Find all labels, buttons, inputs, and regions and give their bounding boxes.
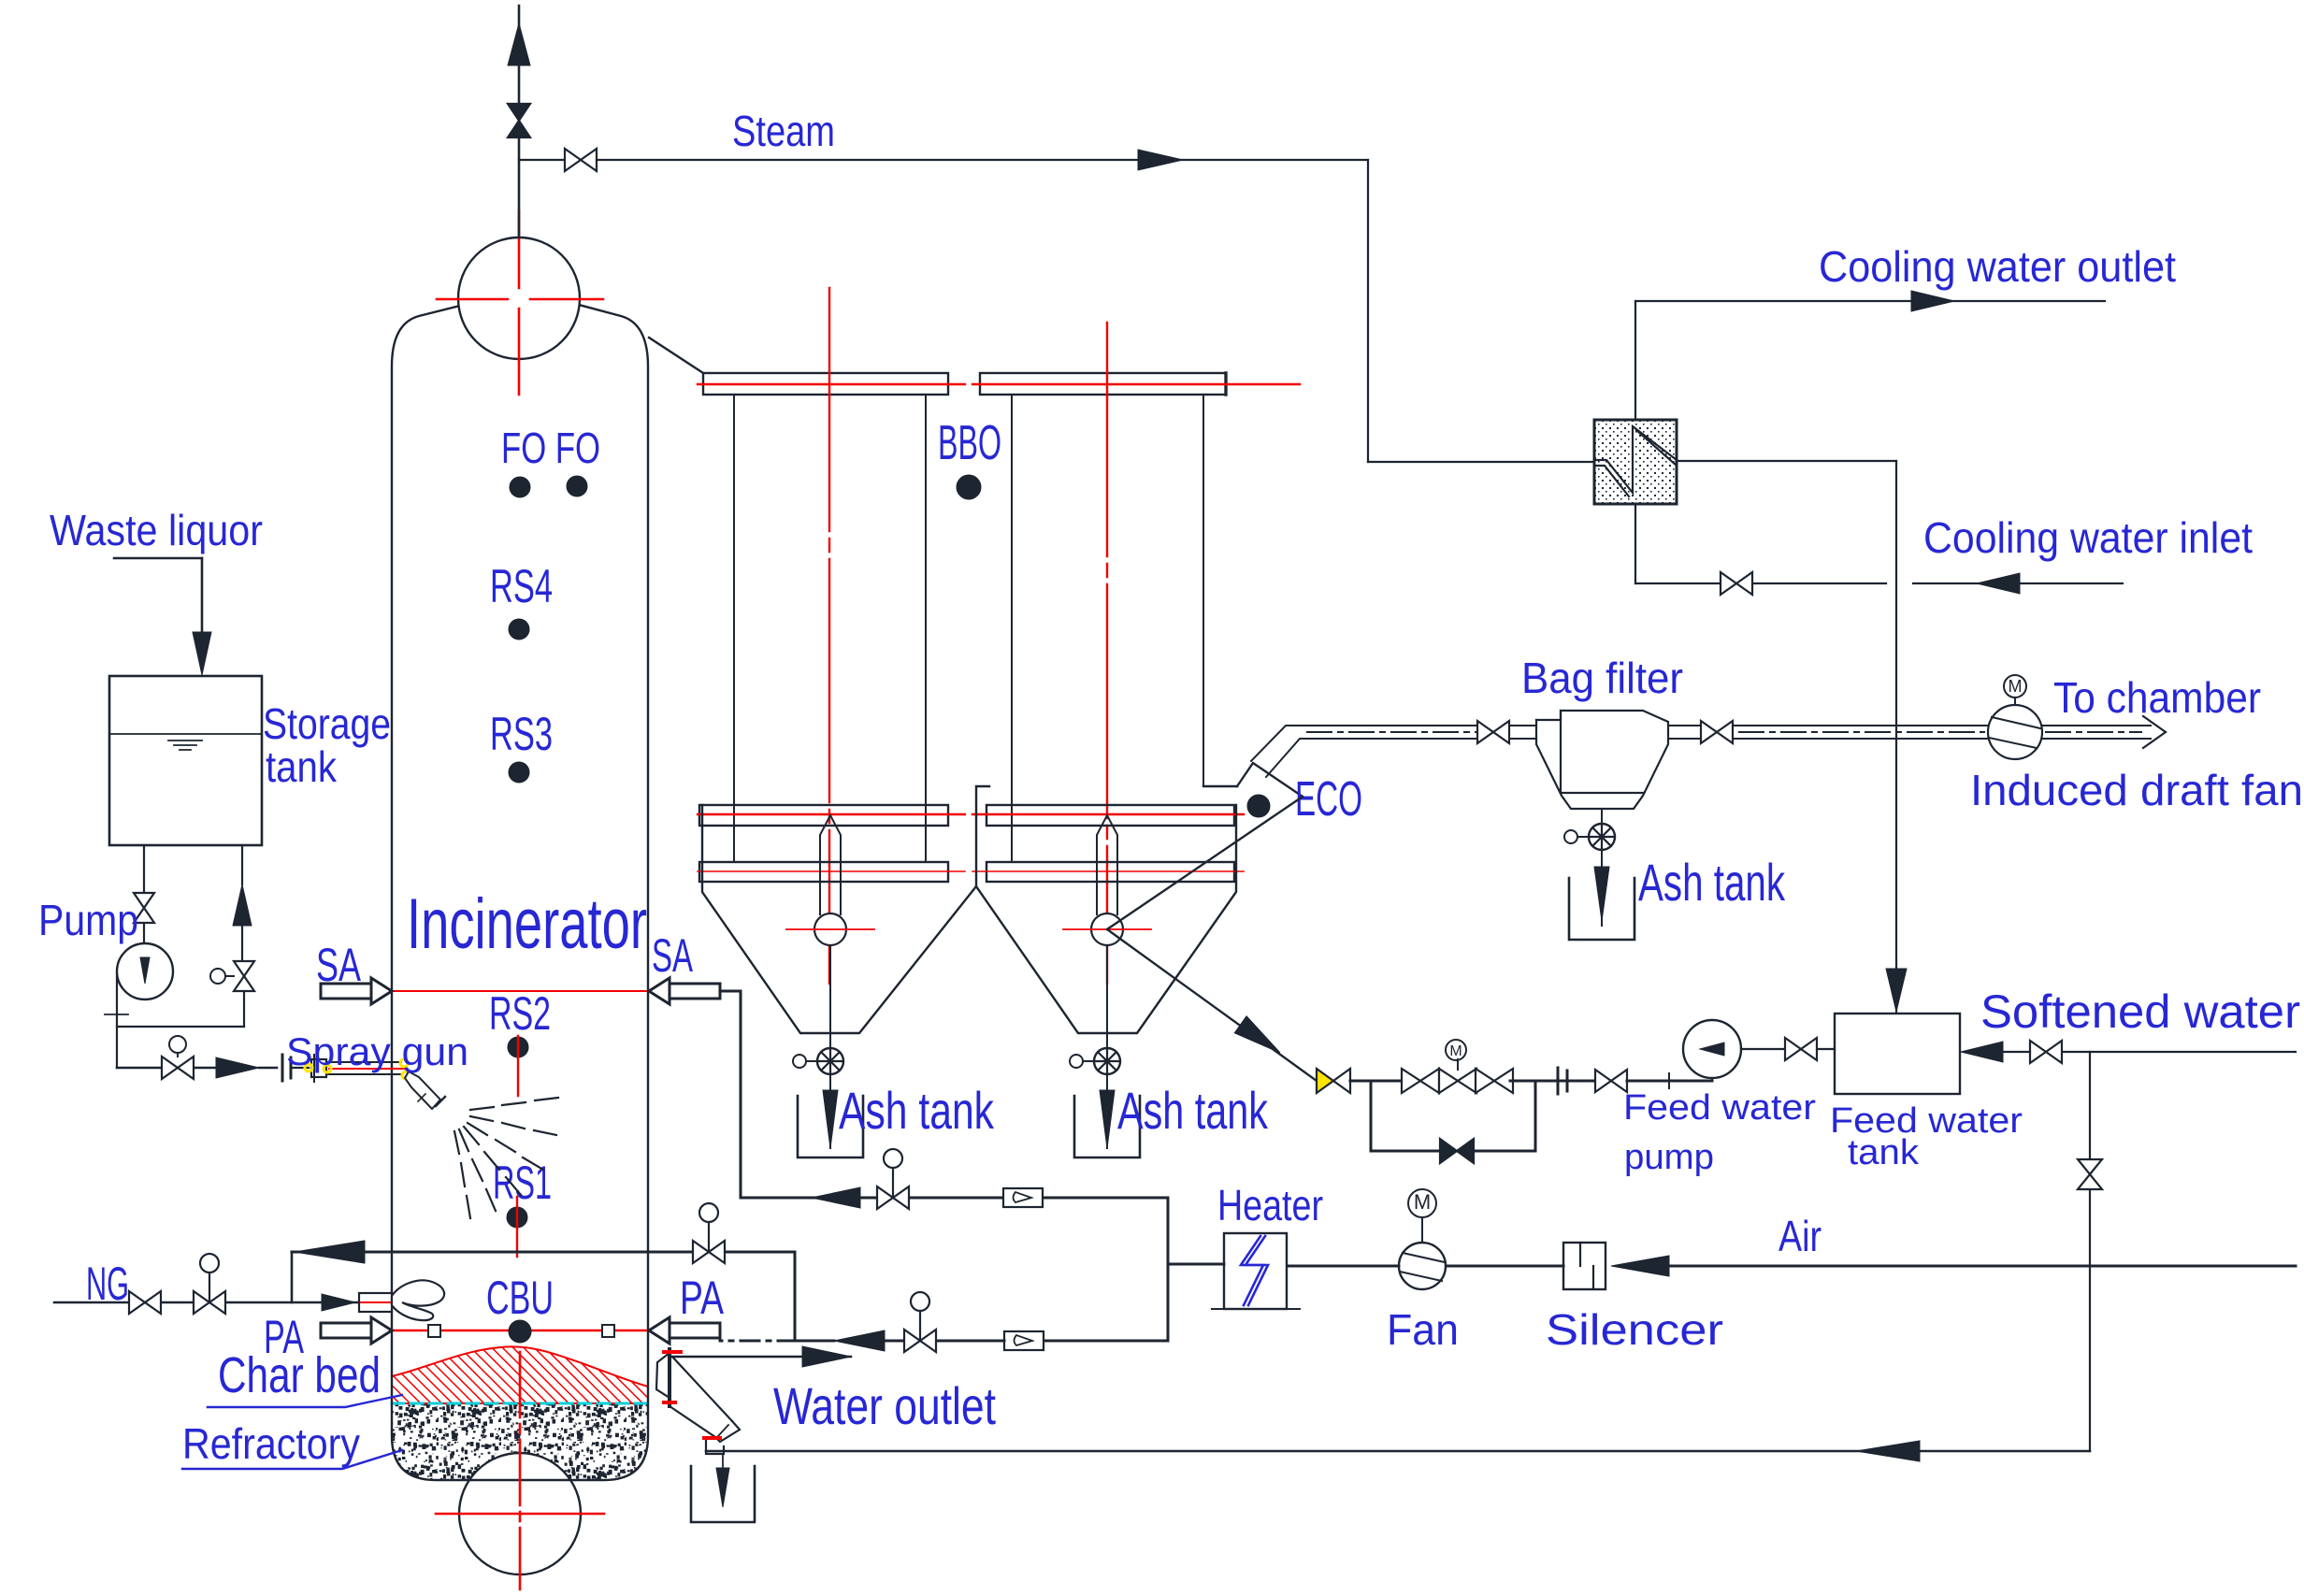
- bag filter rotary valve: [1601, 809, 1603, 824]
- bypass loop: [1371, 1081, 1535, 1151]
- vent arrow: [508, 23, 530, 65]
- svg-text:Ash tank: Ash tank: [839, 1081, 995, 1140]
- svg-text:RS2: RS2: [489, 987, 551, 1040]
- SA nozzle left: [371, 978, 392, 1004]
- char bed leader: [208, 1395, 402, 1407]
- ash tank: [1074, 1096, 1140, 1157]
- RS4 port: [509, 619, 529, 640]
- RS2 red centerline: [517, 1036, 519, 1096]
- motor: [1446, 1040, 1466, 1060]
- red flange lines: [698, 813, 965, 815]
- flow arrow: [1856, 1441, 1920, 1461]
- recirc valve handle: [210, 969, 225, 984]
- refractory stipple fill: [392, 1403, 648, 1480]
- char/refractory boundary (cyan): [392, 1402, 648, 1405]
- svg-text:Heater: Heater: [1217, 1181, 1323, 1229]
- heater centerline: [1212, 1308, 1300, 1310]
- svg-text:Pump: Pump: [38, 896, 138, 944]
- ECO downcomer diagonal: [1107, 797, 1303, 929]
- cooling water inlet line: [1913, 582, 2123, 584]
- air inlet line: [1669, 1265, 2296, 1268]
- feed arrow on diagonal: [1234, 1016, 1280, 1053]
- steam valve: [565, 149, 581, 171]
- valve: [1477, 721, 1493, 743]
- svg-text:Waste liquor: Waste liquor: [50, 506, 263, 554]
- PA level red line: [392, 1330, 648, 1331]
- drop arrow: [716, 1468, 729, 1507]
- valve: [508, 104, 530, 121]
- duct to boiler bank: [649, 338, 703, 373]
- pump arrow: [140, 957, 150, 984]
- bottom return line: [706, 1450, 2090, 1453]
- flow arrow: [802, 1346, 851, 1367]
- svg-text:RS3: RS3: [490, 708, 553, 760]
- incinerator shell: [392, 305, 648, 1480]
- water outlet tank: [691, 1466, 755, 1522]
- cooling water valve: [1721, 572, 1736, 595]
- bypass valve (closed): [1440, 1139, 1457, 1163]
- svg-text:Steam: Steam: [732, 107, 835, 155]
- svg-text:Softened water: Softened water: [1980, 985, 2300, 1038]
- FO ports: [510, 477, 530, 497]
- spray valve: [162, 1057, 178, 1079]
- svg-text:Cooling water inlet: Cooling water inlet: [1923, 513, 2253, 562]
- SA air branch: [742, 1197, 1168, 1200]
- feed water pump: [1683, 1020, 1741, 1078]
- ash tank: [1569, 878, 1634, 940]
- gas centerline: [1307, 731, 1477, 733]
- yellow mark 1: [305, 1064, 312, 1071]
- manifold motor valve: [1439, 1069, 1458, 1093]
- recirc valve: [234, 961, 254, 976]
- SA nozzle right: [649, 978, 670, 1004]
- ECO duct (double line): [1251, 726, 1480, 761]
- NG arrow: [322, 1294, 355, 1311]
- vent line: [518, 6, 521, 237]
- flow arrow: [1961, 1042, 2003, 1062]
- PA port square left: [428, 1325, 440, 1337]
- steam drum: [458, 237, 580, 359]
- cooling water outlet line: [1634, 301, 1636, 420]
- gas line to fan (double): [1733, 725, 1988, 726]
- flow arrow: [812, 1187, 860, 1208]
- svg-text:Cooling water outlet: Cooling water outlet: [1819, 242, 2176, 291]
- RS2 port: [508, 1037, 528, 1057]
- burner flame: [392, 1280, 444, 1320]
- refractory leader: [182, 1450, 402, 1469]
- RS1 port: [507, 1207, 527, 1228]
- motor: [1408, 1189, 1436, 1217]
- tick: [105, 1014, 128, 1015]
- pump suction valve: [134, 893, 154, 908]
- feed water tank: [1835, 1014, 1960, 1094]
- flow arrow: [295, 1241, 365, 1263]
- svg-text:Water outlet: Water outlet: [773, 1376, 996, 1435]
- drop arrow: [1100, 1090, 1115, 1148]
- SA air valve: [877, 1186, 893, 1209]
- drop arrow: [1594, 867, 1609, 921]
- hopper2 upper flange: [986, 805, 1234, 826]
- svg-text:tank: tank: [1848, 1133, 1920, 1172]
- PA nozzle left: [371, 1317, 392, 1344]
- PA port square right: [602, 1325, 614, 1337]
- yellow mark 3: [400, 1059, 408, 1067]
- hopper casing outline: [702, 786, 989, 1033]
- recirculation branch: [241, 845, 243, 884]
- pump arrow: [1700, 1042, 1724, 1056]
- svg-text:To chamber: To chamber: [2053, 673, 2261, 722]
- spout chute: [672, 1357, 732, 1421]
- svg-text:Fan: Fan: [1387, 1305, 1459, 1354]
- tick: [1668, 1073, 1670, 1088]
- svg-text:ECO: ECO: [1295, 772, 1362, 827]
- svg-text:M: M: [2009, 677, 2023, 696]
- steam flow arrow: [1138, 150, 1183, 170]
- PA nozzle right: [649, 1317, 670, 1344]
- spray fan dashes: [470, 1107, 494, 1110]
- softened water line: [2062, 1051, 2296, 1053]
- boiler bank 2 top plate: [980, 373, 1226, 395]
- blowdown branch: [2089, 1052, 2091, 1158]
- svg-text:Ash tank: Ash tank: [1117, 1081, 1269, 1140]
- motor: [2004, 675, 2026, 697]
- gas valve after bag filter: [1701, 721, 1717, 743]
- water outlet arrow line: [670, 1356, 851, 1359]
- waste liquor pump: [117, 943, 173, 999]
- svg-text:Induced draft fan: Induced draft fan: [1970, 766, 2303, 814]
- manifold valve 1: [1402, 1069, 1420, 1093]
- spray nozzle: [405, 1071, 440, 1109]
- spray gun barrel: [326, 1061, 401, 1063]
- svg-text:M: M: [1449, 1043, 1462, 1059]
- startup line A: [292, 1251, 795, 1254]
- flow arrow: [1911, 291, 1954, 311]
- spout cup: [706, 1441, 724, 1454]
- ECO hood: [1203, 785, 1237, 787]
- heater: [1224, 1233, 1287, 1309]
- svg-text:Air: Air: [1778, 1212, 1822, 1260]
- air header vertical: [1167, 1198, 1170, 1341]
- hopper2 lower flange: [986, 862, 1234, 882]
- svg-text:Ash tank: Ash tank: [1638, 853, 1786, 912]
- rotary valve: [1589, 824, 1615, 850]
- pump suction: [143, 845, 145, 891]
- flange pair: [281, 1055, 284, 1081]
- svg-text:SA: SA: [652, 929, 693, 982]
- svg-text:Storage: Storage: [263, 699, 391, 748]
- svg-text:Silencer: Silencer: [1546, 1305, 1723, 1354]
- flow arrow: [193, 632, 211, 675]
- open outlet arrow: [2143, 716, 2166, 748]
- hot side outlet to feed tank: [1677, 460, 1896, 462]
- bag filter outlet stub: [1668, 725, 1701, 726]
- spray gun body: [311, 1059, 326, 1077]
- flow arrow: [1886, 969, 1907, 1012]
- air arrow: [1611, 1256, 1669, 1276]
- RS1 red centerline: [516, 1197, 518, 1257]
- bank lower header circle x=1184: [1091, 913, 1123, 945]
- bag filter: [1536, 719, 1561, 721]
- silencer: [1563, 1243, 1606, 1289]
- svg-text:Char bed: Char bed: [218, 1347, 381, 1403]
- rotary valve: [817, 1048, 843, 1074]
- orifice flanges: [1557, 1068, 1560, 1094]
- red marks on spout: [664, 1350, 681, 1354]
- burner red line: [361, 1301, 425, 1303]
- fan: [1399, 1243, 1446, 1289]
- PA air valve: [904, 1330, 920, 1352]
- spray gun red line: [329, 1068, 405, 1070]
- boiler bank 1 shell: [733, 395, 735, 862]
- SA level red line: [392, 990, 648, 992]
- svg-text:Refractory: Refractory: [182, 1419, 360, 1468]
- spray feed line: [117, 1067, 161, 1070]
- svg-text:Bag filter: Bag filter: [1521, 654, 1683, 702]
- return arrow up: [233, 884, 252, 926]
- burner block: [359, 1293, 392, 1312]
- bank tube element x=1184: [1097, 815, 1117, 914]
- boiler bank 1 top plate: [703, 373, 948, 395]
- BBO port: [957, 475, 981, 499]
- ECO port dot: [1247, 795, 1270, 817]
- red centerline steam drum: [518, 210, 521, 288]
- bank lower header circle x=888: [814, 913, 846, 945]
- NG valve 1: [129, 1291, 145, 1314]
- pump suction valve: [1595, 1070, 1611, 1092]
- flow arrow: [1977, 573, 2020, 594]
- CBU port: [509, 1320, 531, 1343]
- yellow mark 2: [324, 1065, 331, 1072]
- flow arrow: [216, 1057, 259, 1078]
- gas line after fan: [2042, 725, 2151, 726]
- gas centerline: [1739, 731, 1984, 733]
- spout side plate: [656, 1353, 670, 1398]
- svg-text:PA: PA: [680, 1272, 724, 1324]
- manifold valve 2: [1476, 1069, 1494, 1093]
- PA air branch: [1042, 1340, 1168, 1343]
- char bed hatch: [392, 1346, 648, 1403]
- steam line: [519, 159, 565, 161]
- svg-text:M: M: [1414, 1190, 1431, 1214]
- heater coil: [1241, 1236, 1263, 1305]
- rotary valve: [1094, 1048, 1120, 1074]
- svg-text:RS1: RS1: [493, 1157, 552, 1209]
- svg-text:Feed water: Feed water: [1623, 1088, 1816, 1128]
- RS3 port: [509, 762, 529, 783]
- svg-text:CBU: CBU: [486, 1272, 554, 1324]
- smelt spout bar: [668, 1349, 671, 1406]
- svg-text:Incinerator: Incinerator: [407, 884, 647, 964]
- ECO feed diagonal: [1107, 929, 1317, 1081]
- line A valve: [693, 1241, 709, 1263]
- waste liquor feed: [114, 557, 202, 560]
- SA right connection: [720, 990, 741, 993]
- drop arrow: [823, 1090, 838, 1148]
- spray valve handwheel: [169, 1036, 186, 1053]
- lower drum: [459, 1453, 581, 1574]
- red centerline lower drum: [519, 1352, 522, 1589]
- yellow mark 4: [402, 1071, 410, 1079]
- svg-text:FO FO: FO FO: [501, 424, 600, 472]
- blowdown valve: [2078, 1159, 2102, 1174]
- storage tank: [109, 676, 262, 845]
- induced draft fan: [1988, 705, 2042, 759]
- flow indicator: [1004, 1331, 1044, 1350]
- liquid level line: [109, 733, 262, 735]
- ash tank: [798, 1096, 863, 1157]
- red centerline bank2: [1106, 323, 1108, 914]
- svg-text:Spray gun: Spray gun: [286, 1029, 468, 1073]
- svg-text:tank: tank: [266, 742, 338, 791]
- level symbol: [168, 740, 202, 750]
- flow arrow: [834, 1330, 885, 1351]
- svg-text:BBO: BBO: [938, 416, 1001, 470]
- heat exchanger: [1594, 420, 1677, 504]
- red centerline bank1: [828, 288, 830, 914]
- svg-text:RS4: RS4: [490, 560, 553, 612]
- hopper1 upper flange: [699, 805, 948, 826]
- hopper1 lower flange: [699, 862, 948, 882]
- pump discharge valve: [1785, 1038, 1801, 1060]
- boiler bank 2 shell: [1011, 395, 1013, 862]
- svg-text:pump: pump: [1624, 1138, 1714, 1177]
- NG valve 2: [194, 1291, 209, 1314]
- flow indicator: [1003, 1188, 1043, 1207]
- softened water valve: [2030, 1041, 2046, 1063]
- bank tube element x=888: [820, 815, 841, 914]
- valve: [1317, 1069, 1333, 1093]
